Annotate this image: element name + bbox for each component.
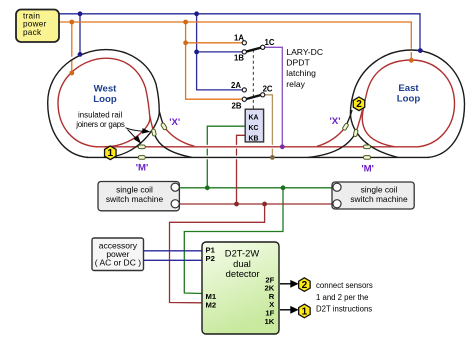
svg-text:1C: 1C: [265, 38, 275, 47]
svg-text:latching: latching: [286, 68, 316, 78]
svg-text:1 and 2 per the: 1 and 2 per the: [316, 293, 368, 302]
svg-text:KC: KC: [249, 125, 259, 132]
svg-text:insulated rail: insulated rail: [78, 110, 123, 119]
svg-text:( AC or DC ): ( AC or DC ): [95, 257, 141, 267]
svg-text:1: 1: [302, 306, 308, 317]
svg-text:'X': 'X': [330, 116, 341, 127]
svg-text:detector: detector: [226, 268, 260, 279]
svg-text:M1: M1: [206, 292, 217, 301]
svg-text:West: West: [94, 83, 118, 94]
svg-text:LARY-DC: LARY-DC: [286, 47, 323, 57]
svg-text:'X': 'X': [169, 117, 180, 128]
svg-text:Loop: Loop: [93, 94, 117, 105]
svg-text:connect sensors: connect sensors: [316, 281, 373, 290]
svg-text:Loop: Loop: [397, 94, 421, 105]
svg-text:DPDT: DPDT: [286, 58, 310, 68]
svg-text:M2: M2: [206, 301, 217, 310]
svg-text:switch machine: switch machine: [106, 194, 164, 204]
svg-text:P2: P2: [206, 254, 215, 263]
svg-text:2: 2: [302, 280, 308, 291]
svg-text:relay: relay: [286, 79, 305, 89]
svg-text:'M': 'M': [136, 162, 149, 173]
svg-text:1: 1: [108, 148, 114, 159]
svg-text:1B: 1B: [234, 53, 244, 62]
svg-text:D2T-2W: D2T-2W: [225, 247, 260, 258]
svg-text:joiners or gaps: joiners or gaps: [75, 120, 125, 129]
svg-text:'M': 'M': [361, 164, 374, 175]
svg-text:1K: 1K: [264, 317, 274, 326]
svg-text:2B: 2B: [232, 102, 242, 111]
svg-text:KB: KB: [249, 136, 259, 143]
svg-text:switch machine: switch machine: [350, 194, 408, 204]
svg-text:KA: KA: [249, 115, 259, 122]
svg-text:pack: pack: [23, 28, 42, 37]
svg-text:East: East: [398, 83, 419, 94]
svg-text:1A: 1A: [234, 34, 244, 43]
svg-text:2A: 2A: [231, 81, 241, 90]
svg-text:2: 2: [356, 99, 362, 110]
svg-text:2C: 2C: [263, 84, 273, 93]
svg-text:D2T instructions: D2T instructions: [316, 305, 372, 314]
